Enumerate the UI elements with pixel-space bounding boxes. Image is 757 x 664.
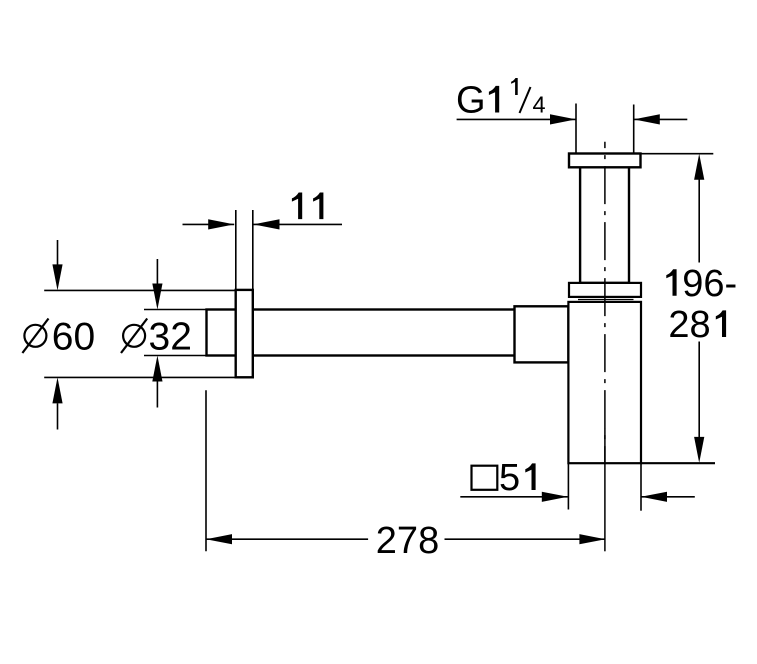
196-281 bottom arrow (points down) <box>694 437 704 463</box>
svg-text:4: 4 <box>533 92 546 118</box>
sq51 arrow left (points right) <box>542 492 568 502</box>
196-281 dimension line upper <box>698 180 700 263</box>
dimension 11 text <box>292 193 302 220</box>
seal ring line under bottom flange <box>578 299 634 301</box>
diameter 32 label <box>121 316 192 359</box>
196-281 top extension line <box>642 153 714 155</box>
278 dimension line right <box>445 538 606 540</box>
d32 bottom arrow line <box>156 381 158 407</box>
svg-text:278: 278 <box>376 520 439 562</box>
sq51 arrow right (points left) <box>641 492 667 502</box>
sq51 extension line right <box>640 463 642 511</box>
G1 dimension line left <box>457 118 576 120</box>
sq51 dimension line left <box>460 496 568 498</box>
G1 arrow right (points left) <box>634 114 660 124</box>
G1 arrow left (points right) <box>550 114 576 124</box>
196-281 text <box>666 263 737 346</box>
d32 top arrow (points down) <box>152 284 162 310</box>
connector nut <box>515 306 569 362</box>
svg-text:5: 5 <box>499 457 520 499</box>
196-281 dimension line lower <box>698 342 700 438</box>
d60 top arrow (points down) <box>52 264 62 290</box>
svg-text:28: 28 <box>668 304 710 346</box>
trap body <box>568 302 641 463</box>
bottom flange nut <box>569 283 641 297</box>
G1 dimension line right <box>634 118 688 120</box>
d60 bottom arrow (points up) <box>52 377 62 403</box>
vertical inlet pipe walls <box>580 160 629 283</box>
svg-text:96-: 96- <box>682 263 737 305</box>
d32 bottom extension line <box>144 355 206 357</box>
dimension G1 1/4 text <box>456 78 546 122</box>
d60 bottom extension line <box>44 376 236 378</box>
d60 top arrow line <box>57 240 59 265</box>
center line re-draw over body (dash-dot) <box>604 142 606 462</box>
svg-text:G: G <box>456 80 486 122</box>
278 extension line left <box>205 390 207 551</box>
196-281 top arrow (points up) <box>694 154 704 180</box>
G1 extension line left <box>575 104 577 153</box>
278 dimension line left <box>206 538 368 540</box>
horizontal outlet pipe <box>207 310 516 356</box>
d32 top extension line <box>144 309 206 311</box>
11 extension line right <box>252 210 254 289</box>
11 arrow left (points right) <box>208 219 234 229</box>
278 arrow left (points left) <box>206 534 232 544</box>
11 dimension line right <box>254 223 343 225</box>
278 arrow right (points right) <box>579 534 605 544</box>
sq51 dimension line right <box>641 496 695 498</box>
diameter 60 label <box>22 316 95 359</box>
d32 top arrow line <box>156 259 158 284</box>
square 51 label <box>472 457 536 499</box>
svg-text:60: 60 <box>52 316 95 359</box>
svg-text:32: 32 <box>149 316 192 359</box>
11 extension line left <box>235 210 237 289</box>
11 arrow right (points left) <box>254 219 280 229</box>
11 dimension line left <box>183 223 235 225</box>
G1 extension line right <box>633 105 635 154</box>
sq51 extension line left <box>567 463 569 509</box>
top flange <box>569 154 641 168</box>
wall flange (rosette) <box>236 290 253 377</box>
d60 bottom arrow line <box>57 403 59 429</box>
d32 bottom arrow (points up) <box>152 356 162 382</box>
196-281 bottom extension line (body bottom extended) <box>641 462 715 464</box>
d60 top extension line <box>44 289 236 291</box>
